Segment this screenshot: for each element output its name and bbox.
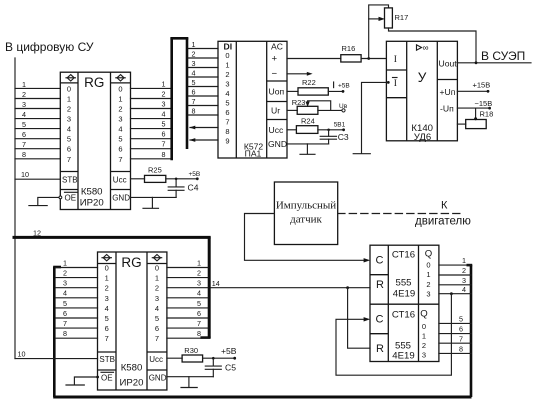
svg-text:OE: OE [65,193,77,202]
svg-text:0: 0 [118,84,122,93]
svg-text:C3: C3 [338,132,349,142]
counter output wire 1 [439,256,471,265]
wire: DAC GND net [287,143,329,145]
DAC input wire 5 [188,78,218,87]
bus: vertical collector right of lower RG [200,237,210,339]
svg-text:6: 6 [225,108,229,117]
svg-text:RG: RG [84,75,104,90]
DD1 strobe-mode diamond symbol (right column) [116,75,125,81]
svg-text:R23: R23 [292,98,306,107]
svg-text:6: 6 [118,145,122,154]
svg-text:Ucc: Ucc [269,125,285,135]
resistor R25 [131,166,198,183]
svg-text:C: C [376,255,384,267]
svg-text:5: 5 [162,120,166,129]
svg-text:УД6: УД6 [414,132,432,143]
wire: R17 bottom to feedback right leg [389,28,477,63]
svg-text:3: 3 [155,294,159,303]
register DD2 К580 ИР20 (lower RG) box [98,252,167,390]
svg-text:3: 3 [225,80,229,89]
wire: upper RG GND to C4 [131,196,177,198]
svg-text:2: 2 [105,284,109,293]
svg-text:5: 5 [67,135,71,144]
svg-text:R17: R17 [395,13,409,22]
svg-text:1: 1 [422,332,426,341]
svg-text:двигателю: двигателю [415,216,471,228]
svg-text:5: 5 [459,315,463,324]
DAC input wire 2 [188,49,218,58]
svg-text:2: 2 [118,105,122,114]
counter DD3.1 part number 555 4Е19 [393,277,415,299]
DD2 pin OE (inverted) [101,372,114,382]
svg-text:6: 6 [459,325,463,334]
DD2 right pin digits 0-7 [155,264,159,344]
svg-text:Uг: Uг [271,106,280,116]
svg-text:7: 7 [459,334,463,343]
DD2 strobe-mode diamond symbol (right column) [152,255,161,261]
svg-text:+5В: +5В [189,171,201,178]
svg-text:2: 2 [192,49,196,58]
wire: bottom return bus (thick) [53,396,471,399]
DAC input wire 7 [188,97,218,106]
wire: cascade Q3 to lower counter C [336,294,451,376]
DD1 right pin digits 0-7 [118,84,122,163]
svg-text:3: 3 [192,59,196,68]
wire 5 (upper RG input D4) [15,120,60,129]
svg-text:8: 8 [22,150,26,159]
svg-text:7: 7 [155,334,159,343]
svg-text:8: 8 [63,329,67,338]
svg-text:7: 7 [22,140,26,149]
DD2 strobe-mode diamond symbol (left column) [102,255,111,261]
svg-text:6: 6 [67,145,71,154]
svg-text:+: + [272,54,278,65]
lower RG input wire 8 [56,329,98,338]
bus: vertical collector of counter outputs [467,265,473,397]
svg-text:STB: STB [99,355,115,364]
svg-text:1: 1 [118,95,122,104]
upper RG output wire 2 [131,90,171,99]
svg-text:4: 4 [155,304,159,313]
op-amp gain symbol (triangle + infinity) [417,43,429,53]
svg-text:5: 5 [155,314,159,323]
op-amp pin Ī (inverting input, overline) [393,78,398,90]
bus: vertical feed left of lower RG inputs [53,267,61,397]
bus: right line [186,38,189,149]
svg-text:AC: AC [271,42,283,52]
svg-text:5: 5 [105,314,109,323]
svg-text:ИР20: ИР20 [120,378,144,389]
svg-text:555: 555 [395,277,411,288]
svg-text:4: 4 [225,89,229,98]
svg-text:5: 5 [63,299,67,308]
svg-text:9: 9 [225,137,229,146]
svg-text:ИР20: ИР20 [80,198,104,209]
svg-text:0: 0 [67,84,71,93]
svg-text:R22: R22 [302,78,316,87]
counter DD3.2 pin C (clock, arrow) [364,314,384,326]
svg-text:5: 5 [225,99,229,108]
lower RG output wire 5 [167,299,208,308]
wire: feedback left leg up to R17 [369,5,389,59]
svg-text:14: 14 [212,279,220,288]
svg-text:0: 0 [225,51,229,60]
svg-text:C5: C5 [225,363,236,373]
lower RG output wire 6 [167,309,208,318]
node: junction of R17 leg and op-amp input [367,57,370,60]
DD2 left pin digits 0-7 [105,264,109,344]
upper RG output wire 8 [131,150,171,159]
svg-text:4: 4 [22,110,26,119]
svg-text:7: 7 [67,155,71,164]
svg-text:12: 12 [33,229,41,238]
svg-text:1: 1 [63,258,67,267]
lower RG output wire 4 [167,289,208,298]
counter output wire 2 [439,266,471,275]
lower RG input wire 5 [56,299,98,308]
svg-text:8: 8 [162,150,166,159]
lower RG output wire 3 [167,279,208,288]
svg-text:6: 6 [22,130,26,139]
svg-text:2: 2 [63,269,67,278]
svg-text:2: 2 [197,269,201,278]
svg-text:10: 10 [21,170,29,179]
ground at op-amp inverting input [353,81,389,154]
wire to DAC DI9 with left arrow [189,138,218,142]
wire: dashed link to motor [338,213,460,215]
svg-text:R30: R30 [184,346,198,355]
DAC input wire 6 [188,87,218,96]
svg-text:C: C [376,314,384,326]
counter output wire 8 [439,345,471,354]
svg-text:0: 0 [155,264,159,273]
svg-text:1: 1 [67,95,71,104]
DD1 strobe-mode diamond symbol (left column) [66,75,75,81]
svg-text:7: 7 [162,140,166,149]
svg-text:+5В: +5В [338,83,350,90]
svg-text:Uв: Uв [339,103,348,110]
lower RG output wire 1 [167,258,208,267]
svg-text:7: 7 [192,97,196,106]
ground at lower RG GND [181,377,197,388]
svg-text:5: 5 [22,120,26,129]
svg-text:6: 6 [192,87,196,96]
svg-text:2: 2 [426,280,430,289]
svg-text:датчик: датчик [290,214,322,226]
svg-text:6: 6 [105,324,109,333]
node: К двигателю label [415,200,471,228]
svg-text:3: 3 [422,351,426,360]
op-amp part number К140 УД6 [411,123,433,143]
wire: reset branch to lower counter R [348,288,370,349]
svg-text:R: R [376,343,384,355]
lower RG input wire 4 [56,289,98,298]
counter output wire 3 [439,276,471,285]
DAC DI pin digits 0-9 [225,51,229,146]
wire 3 (upper RG input D2) [15,100,60,109]
svg-text:1: 1 [22,80,26,89]
svg-text:6: 6 [162,130,166,139]
svg-text:8: 8 [459,345,463,354]
svg-text:8: 8 [225,127,229,136]
svg-text:∞: ∞ [423,43,429,53]
counters DD3 555 4Е19 box [370,245,439,361]
wire 8 (upper RG input D7) [15,150,60,159]
svg-text:+Uп: +Uп [440,87,456,97]
node: cascade junction on wire 4 [450,292,453,295]
resistor R22 [287,78,343,95]
svg-text:GND: GND [149,373,167,382]
svg-text:7: 7 [63,319,67,328]
svg-text:2: 2 [67,105,71,114]
svg-text:3: 3 [63,279,67,288]
svg-text:4: 4 [63,289,67,298]
wire: left data rail from В цифровую СУ [14,58,16,359]
svg-text:К: К [441,200,448,212]
node: junction on wire 14 [346,286,349,289]
svg-text:+5В: +5В [221,346,237,356]
potentiometer R18 (offset null) [457,108,493,129]
node +5В terminal (R30) [221,346,237,360]
bus: data bus between registers and DAC (left line) [170,38,173,161]
resistor R16 [341,44,361,62]
svg-text:1: 1 [192,40,196,49]
svg-text:1: 1 [426,270,430,279]
svg-text:4Е19: 4Е19 [392,351,414,362]
svg-text:5: 5 [118,135,122,144]
wire: DAC + output to R16 [287,58,341,60]
svg-text:3: 3 [426,290,430,299]
wire 7 (upper RG input D6) [15,140,60,149]
svg-text:5В1: 5В1 [334,122,346,129]
DAC DA1 К572 ПА1 box [218,41,287,158]
counter output wire 6 [439,325,471,334]
capacitor C5 [205,357,236,377]
op-amp DA2 К140 УД6 box [386,41,457,141]
svg-text:2: 2 [162,90,166,99]
svg-text:1: 1 [155,274,159,283]
svg-text:1: 1 [225,61,229,70]
svg-text:В цифровую СУ: В цифровую СУ [5,40,94,54]
svg-text:−15В: −15В [475,99,493,108]
svg-text:R24: R24 [301,117,315,126]
svg-text:К580: К580 [121,363,143,374]
wire 10 (lower RG STB strobe) [15,349,98,358]
lower RG input wire 2 [56,269,98,278]
svg-text:5: 5 [197,299,201,308]
svg-text:3: 3 [67,115,71,124]
lower RG input wire 6 [56,309,98,318]
svg-text:1: 1 [105,274,109,283]
wire 1 (upper RG input D0) [15,80,60,89]
wire: Uout to В СУЭП [457,61,531,64]
svg-text:3: 3 [105,294,109,303]
svg-text:Q: Q [425,249,432,260]
svg-text:1: 1 [462,256,466,265]
svg-text:СТ16: СТ16 [392,249,415,260]
node Uв terminal [339,103,348,112]
svg-text:ПА1: ПА1 [245,149,262,159]
capacitor C3 [320,129,349,144]
svg-text:7: 7 [118,155,122,164]
register DD1 К580 ИР20 (upper RG) box [60,72,130,209]
DD1 part number К580 ИР20 [80,187,104,209]
svg-text:5: 5 [192,78,196,87]
upper RG output wire 1 [131,79,171,88]
svg-text:10: 10 [18,349,26,358]
svg-text:+15В: +15В [473,81,491,90]
potentiometer R23 [287,98,344,114]
resistor R24 [287,117,344,134]
svg-text:0: 0 [426,260,430,269]
svg-text:3: 3 [197,279,201,288]
upper RG output wire 3 [131,100,171,109]
resistor R30 [167,346,235,362]
svg-text:2: 2 [462,266,466,275]
upper RG output wire 4 [131,110,171,119]
svg-text:2: 2 [422,341,426,350]
counter DD3.2 Q digits 0-3 [422,322,426,360]
svg-text:7: 7 [197,319,201,328]
lower RG output wire 8 [167,329,208,338]
svg-text:4: 4 [462,285,466,294]
svg-text:2: 2 [225,70,229,79]
DD1 pin OE (inverted, with input circle) [59,192,77,202]
node +5В terminal (R22) [334,82,350,93]
DAC input wire 4 [188,68,218,77]
wire to DAC DI8 with left arrow [189,126,218,130]
wire: sensor output to upper counter C [245,214,365,261]
counter output wire 7 [439,334,471,343]
ground at DAC GND [300,144,315,154]
svg-text:В СУЭП: В СУЭП [481,49,525,63]
svg-text:4: 4 [197,289,201,298]
counter output wire 5 [439,315,471,324]
svg-text:R16: R16 [342,44,356,53]
node +5В terminal (R25) [189,171,201,180]
R17 wiper arrow [369,17,385,21]
svg-text:СТ16: СТ16 [392,310,415,321]
svg-text:OE: OE [101,373,113,382]
wire 6 (upper RG input D5) [15,130,60,139]
wire: R16 to op-amp I input [361,58,386,60]
upper RG output wire 7 [131,140,171,149]
potentiometer R17 (vertical) [385,8,409,28]
wire 10 (upper RG STB strobe) [15,170,60,179]
capacitor C4 [168,178,199,198]
svg-text:−: − [272,69,278,80]
lower RG output wire 2 [167,269,208,278]
svg-text:4: 4 [105,304,109,313]
ground at lower RG OE pin [66,376,99,385]
wire: DAC − stub with right arrow [287,72,313,76]
wire 2 (upper RG input D1) [15,90,60,99]
svg-text:6: 6 [63,309,67,318]
lower RG input wire 3 [56,279,98,288]
svg-text:6: 6 [197,309,201,318]
wire: +Un to +15В [457,81,490,93]
svg-text:Ucc: Ucc [113,175,127,184]
counter DD3.1 pin C (clock, arrow) [364,255,384,267]
svg-text:7: 7 [225,118,229,127]
svg-text:8: 8 [192,106,196,115]
svg-text:6: 6 [155,324,159,333]
counter output wire 4 [439,285,471,294]
svg-text:3: 3 [162,100,166,109]
svg-text:R: R [376,279,384,291]
DAC part number К572 ПА1 [244,142,264,159]
wire: lower RG GND to C5 [167,376,213,378]
lower RG output wire 7 [167,319,208,328]
svg-text:4: 4 [162,110,166,119]
upper RG output wire 6 [131,130,171,139]
wire 14: reset line from bus to counters R [211,279,370,288]
upper RG output wire 5 [131,120,171,129]
svg-text:Q: Q [420,309,427,320]
wire 12: thick feedback bus from rail [13,229,211,238]
ground at upper RG OE pin [29,197,60,205]
svg-text:I: I [394,54,397,65]
svg-text:C4: C4 [188,183,199,193]
svg-text:GND: GND [268,139,287,149]
svg-text:0: 0 [105,264,109,273]
svg-text:3: 3 [118,115,122,124]
counter DD3.1 Q digits 0-3 [426,260,430,298]
svg-text:3: 3 [462,276,466,285]
svg-text:3: 3 [22,100,26,109]
svg-text:GND: GND [112,193,130,202]
svg-text:Uоп: Uоп [269,87,285,97]
svg-text:R25: R25 [148,166,162,175]
svg-text:У: У [418,70,427,85]
svg-text:STB: STB [62,175,78,184]
svg-text:8: 8 [197,329,201,338]
svg-text:Uout: Uout [439,59,458,69]
svg-text:Импульсный: Импульсный [276,200,336,212]
svg-text:-Uп: -Uп [440,103,454,113]
bus: top cap [170,37,188,40]
svg-text:2: 2 [155,284,159,293]
svg-text:RG: RG [121,255,141,270]
svg-text:1: 1 [162,79,166,88]
wire 4 (upper RG input D3) [15,110,60,119]
svg-text:4: 4 [118,125,122,134]
svg-text:R18: R18 [480,110,494,119]
pulse sensor: Импульсный датчик box [274,182,337,245]
svg-text:I: I [394,78,397,89]
DD2 part number К580 ИР20 [120,363,144,389]
DAC input wire 1 [188,40,218,49]
DD1 left pin digits 0-7 [67,84,71,163]
svg-text:4: 4 [67,125,71,134]
lower RG input wire 7 [56,319,98,328]
wire: -Un to -15В [457,99,492,110]
svg-text:7: 7 [105,334,109,343]
DAC input wire 8 [188,106,218,115]
svg-text:0: 0 [422,322,426,331]
lower RG input wire 1 [56,258,98,267]
DAC input wire 3 [188,59,218,68]
node 5В1 terminal [334,122,346,132]
svg-text:Ucc: Ucc [149,355,163,364]
svg-text:К580: К580 [81,187,103,198]
R23 wiper to output [306,101,331,111]
ground at upper RG GND [143,197,159,208]
svg-text:4: 4 [192,68,196,77]
svg-text:4Е19: 4Е19 [393,289,415,300]
counter DD3.2 part number 555 4Е19 [392,340,414,361]
svg-text:2: 2 [22,90,26,99]
